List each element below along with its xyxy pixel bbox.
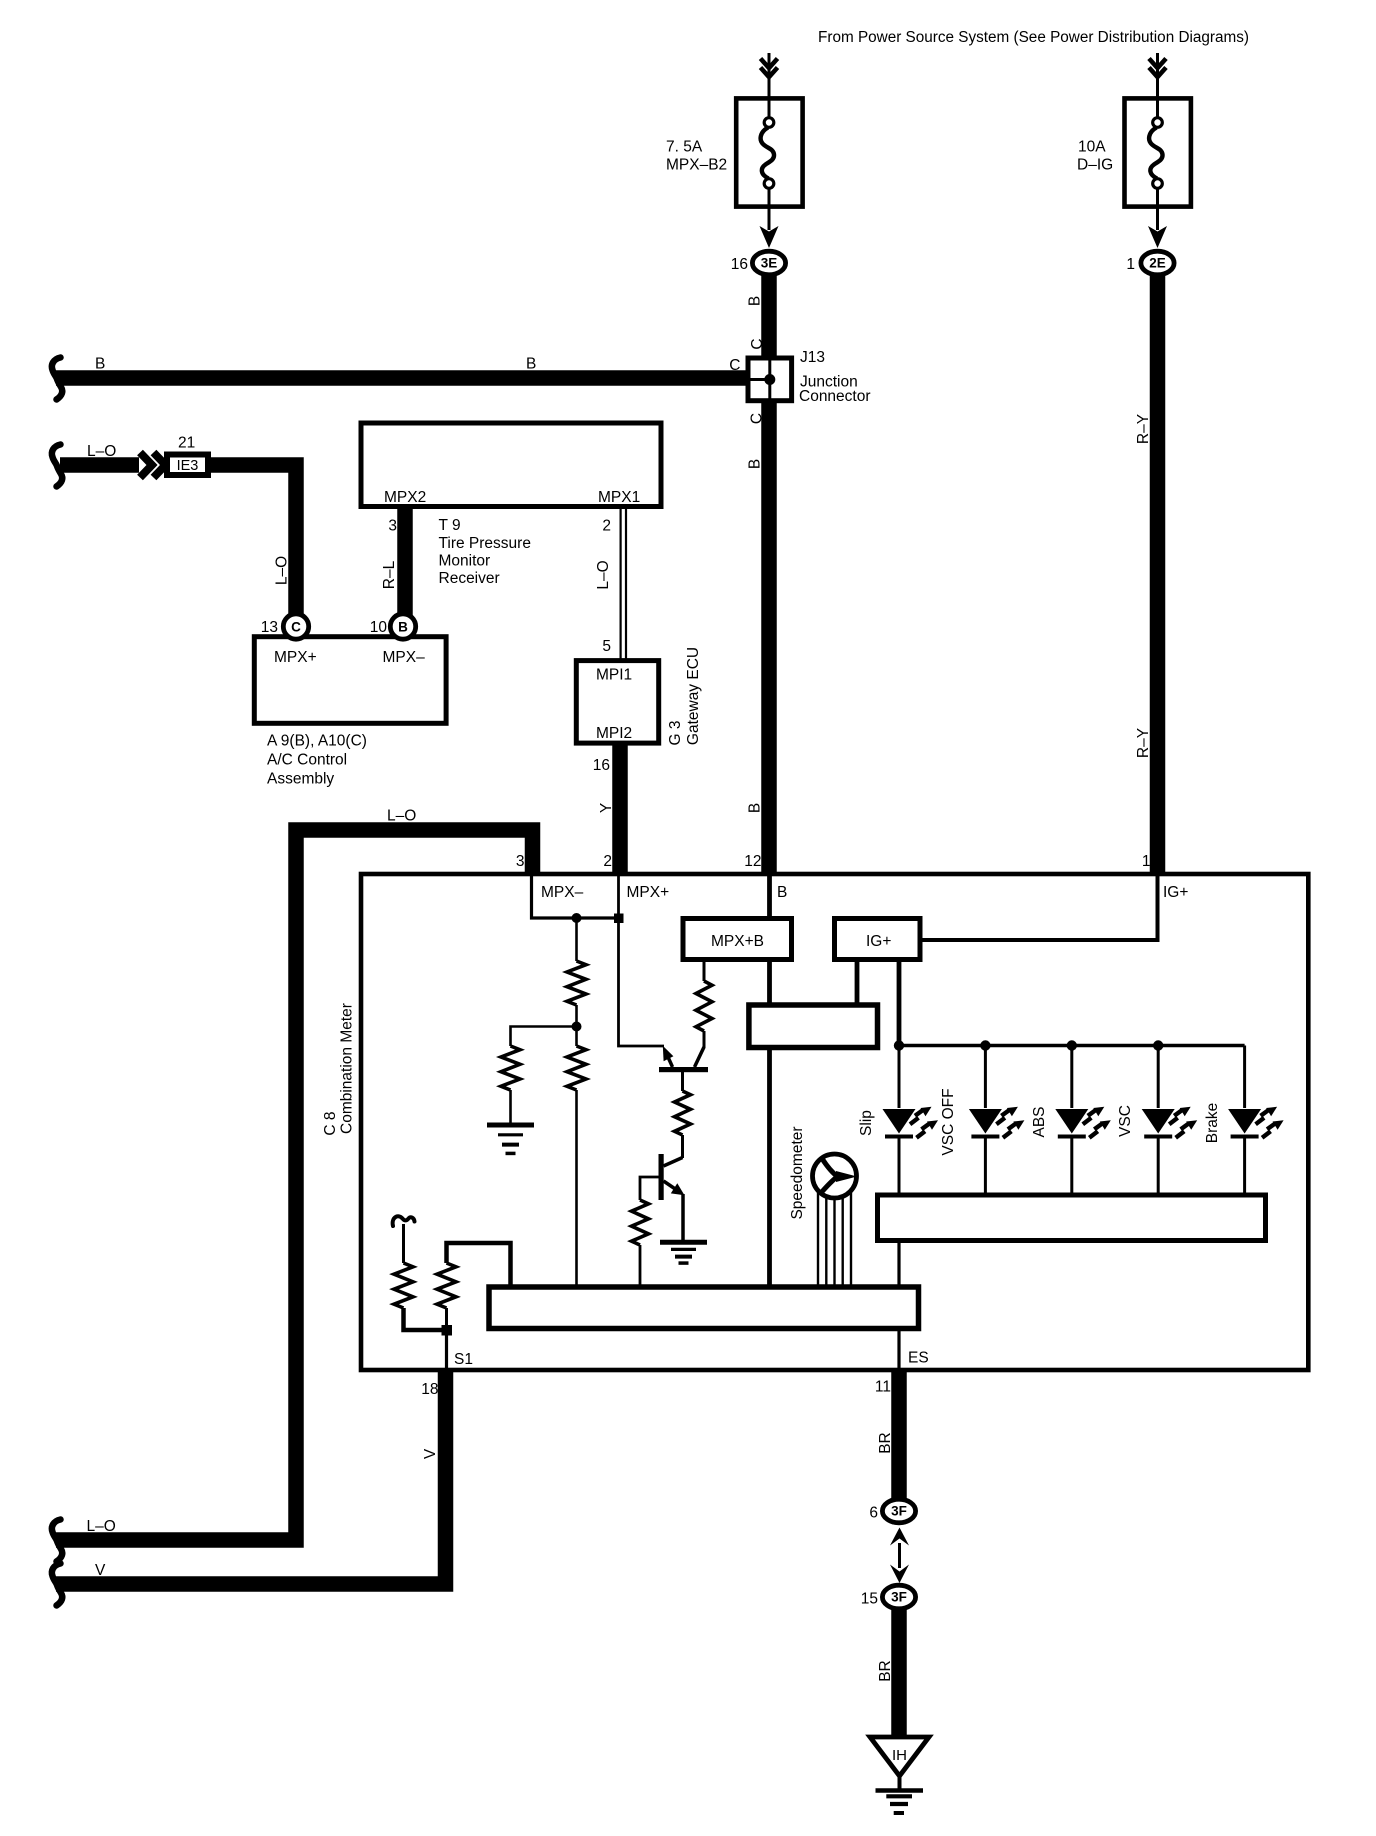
svg-text:5: 5 <box>602 638 611 655</box>
svg-text:L–O: L–O <box>87 1518 116 1535</box>
node <box>894 1040 904 1050</box>
terminal box MPX+B <box>683 919 792 960</box>
svg-text:IG+: IG+ <box>866 933 891 950</box>
resistor (between Q1 and Q2) <box>675 1091 691 1135</box>
svg-text:1: 1 <box>1126 256 1135 273</box>
connector 21 IE3 <box>167 455 208 476</box>
wire Y from G3 pin 16 to meter pin 2 <box>612 746 628 874</box>
svg-text:IH: IH <box>892 1747 907 1764</box>
junction connector J13 <box>748 358 792 401</box>
connector 6 3F <box>882 1499 915 1523</box>
indicator LED Slip <box>883 1046 939 1196</box>
svg-text:3: 3 <box>388 518 397 535</box>
combination meter C8 box <box>361 874 1308 1370</box>
connector 15 3F <box>891 1597 907 1737</box>
gateway ECU G3 box <box>576 661 658 744</box>
wire BR from meter pin 11 to connector 3F <box>891 1370 907 1499</box>
svg-text:ES: ES <box>908 1350 929 1367</box>
indicator LED VSC OFF <box>969 1046 1025 1196</box>
resistor (MPX- upper) <box>567 961 586 1005</box>
speedometer ribbon wires <box>818 1185 851 1286</box>
svg-text:V: V <box>422 1448 439 1459</box>
svg-text:Slip: Slip <box>858 1110 875 1136</box>
continuation squiggle (V wire) <box>52 1564 62 1606</box>
svg-text:ABS: ABS <box>1031 1106 1048 1137</box>
svg-text:B: B <box>747 459 764 469</box>
svg-text:Y: Y <box>598 803 615 813</box>
probe hook <box>393 1216 415 1226</box>
svg-text:MPX+B: MPX+B <box>711 933 764 950</box>
svg-text:11: 11 <box>875 1379 891 1396</box>
wire IG+ internal from pin 1 <box>923 875 1158 940</box>
svg-text:A/C Control: A/C Control <box>267 752 347 769</box>
wire R-L from T9 pin 3 to A/C connector B <box>397 509 413 616</box>
svg-text:BR: BR <box>877 1660 894 1682</box>
ground <box>487 1123 534 1128</box>
indicator lamp driver box <box>878 1195 1266 1241</box>
svg-text:MPX1: MPX1 <box>598 489 640 506</box>
svg-text:BR: BR <box>877 1432 894 1454</box>
fuse F1 7.5A MPX-B2 <box>736 98 802 206</box>
svg-text:C: C <box>729 357 740 374</box>
connector C (pin 13) <box>283 614 308 639</box>
wire V from page edge to meter pin 18 <box>56 1370 446 1584</box>
svg-text:12: 12 <box>744 853 761 870</box>
svg-text:VSC OFF: VSC OFF <box>940 1088 957 1155</box>
wire branch to grounded resistor <box>511 1027 577 1047</box>
svg-text:6: 6 <box>869 1505 878 1522</box>
wire Q1 to Q2 <box>681 1072 684 1091</box>
internal bus box <box>489 1287 919 1329</box>
wire IG+ to lamp bus <box>897 962 902 1046</box>
resistor (Q1 collector to MPX+B) <box>696 981 712 1031</box>
wire ES internal <box>897 1241 900 1286</box>
ground (Q2 emitter) <box>660 1240 707 1245</box>
wire L-O (twisted pair) from T9 pin 2 to gateway ECU pin 5 <box>619 507 621 661</box>
svg-text:18: 18 <box>421 1381 438 1398</box>
arrow into connector 3E <box>768 207 771 231</box>
indicator LED ABS <box>1055 1046 1111 1196</box>
svg-text:B: B <box>526 356 536 373</box>
wire B internal <box>767 875 772 917</box>
resistor (sensor left) <box>394 1263 413 1308</box>
svg-text:2: 2 <box>602 518 611 535</box>
resistor (sensor right) <box>437 1263 456 1308</box>
wire MPX- internal <box>575 918 578 961</box>
svg-text:A 9(B), A10(C): A 9(B), A10(C) <box>267 733 367 750</box>
svg-text:L–O: L–O <box>87 443 116 460</box>
svg-text:Speedometer: Speedometer <box>789 1126 806 1219</box>
svg-text:C 8: C 8 <box>322 1111 339 1135</box>
svg-text:15: 15 <box>861 1591 878 1608</box>
connector 16 3E <box>752 251 785 275</box>
svg-text:IG+: IG+ <box>1163 884 1188 901</box>
svg-text:Brake: Brake <box>1204 1103 1221 1144</box>
svg-text:V: V <box>95 1562 106 1579</box>
svg-text:3E: 3E <box>761 256 778 271</box>
svg-text:10A: 10A <box>1078 139 1106 156</box>
svg-text:G 3: G 3 <box>667 721 684 746</box>
arrow into connector 2E <box>1156 207 1159 231</box>
driver box <box>749 1005 878 1048</box>
svg-text:7. 5A: 7. 5A <box>666 139 703 156</box>
continuation squiggle (L-O wire) <box>52 445 62 487</box>
wire MPX+ internal <box>619 875 665 1046</box>
wire Q2 base <box>640 1177 659 1200</box>
terminal box IG+ <box>835 919 921 960</box>
svg-text:C: C <box>291 620 301 635</box>
connector 1 2E <box>1141 251 1174 275</box>
continuation squiggle (B wire) <box>52 358 62 400</box>
transistor Q1 (PNP) <box>659 1067 708 1072</box>
node <box>1153 1040 1163 1050</box>
wire from power source into fuse F2 <box>1156 53 1159 98</box>
svg-text:3: 3 <box>516 853 525 870</box>
svg-text:MPX–: MPX– <box>383 649 426 666</box>
node on MPX- cell <box>572 913 582 923</box>
ground symbol <box>898 1774 902 1791</box>
node <box>980 1040 990 1050</box>
svg-text:T 9: T 9 <box>439 517 461 534</box>
svg-text:Receiver: Receiver <box>439 570 500 587</box>
svg-text:R–Y: R–Y <box>1135 414 1152 444</box>
wire L-O from page edge up to meter pin 3 <box>56 830 533 1540</box>
svg-text:L–O: L–O <box>274 556 291 585</box>
svg-text:Connector: Connector <box>799 388 871 405</box>
junction square S1 <box>442 1325 453 1336</box>
resistor (Q2 base) <box>632 1200 649 1245</box>
wire L-O from IE3 down to A/C connector C <box>205 465 296 616</box>
svg-text:Gateway ECU: Gateway ECU <box>685 647 702 745</box>
svg-text:Assembly: Assembly <box>267 771 334 788</box>
svg-text:Combination Meter: Combination Meter <box>339 1003 356 1134</box>
wire S1 <box>445 1335 448 1370</box>
svg-text:IE3: IE3 <box>177 458 199 474</box>
svg-text:MPI2: MPI2 <box>596 725 632 742</box>
svg-text:L–O: L–O <box>595 560 612 589</box>
continuation squiggle (L-O bottom) <box>52 1520 62 1562</box>
node <box>1067 1040 1077 1050</box>
svg-text:S1: S1 <box>454 1351 473 1368</box>
svg-text:B: B <box>747 803 764 813</box>
node <box>572 1022 582 1032</box>
svg-text:From Power Source System (See: From Power Source System (See Power Dist… <box>818 29 1249 46</box>
svg-text:B: B <box>95 356 105 373</box>
indicator LED VSC <box>1142 1046 1198 1196</box>
svg-text:Monitor: Monitor <box>439 553 491 570</box>
lamp bus wire <box>899 1044 1245 1047</box>
wire R-Y vertical from 2E to meter pin 1 <box>1150 272 1166 874</box>
arrow down to 3F <box>890 1565 909 1584</box>
svg-text:13: 13 <box>261 619 278 636</box>
svg-text:2: 2 <box>603 853 612 870</box>
fuse F2 10A D-IG <box>1125 98 1191 206</box>
svg-text:C: C <box>749 413 766 424</box>
svg-text:1: 1 <box>1142 853 1151 870</box>
svg-text:MPX+: MPX+ <box>274 649 317 666</box>
svg-text:MPX+: MPX+ <box>627 884 670 901</box>
wire IG+ to driver box <box>855 962 860 1003</box>
svg-text:D–IG: D–IG <box>1077 157 1113 174</box>
T9 tire pressure monitor receiver <box>361 423 661 507</box>
wire resistor to bus box <box>447 1243 511 1286</box>
transistor Q2 (NPN) <box>659 1154 664 1200</box>
A/C control assembly box <box>254 637 446 724</box>
svg-text:16: 16 <box>593 757 610 774</box>
connector B (pin 10) <box>390 614 415 639</box>
svg-text:R–Y: R–Y <box>1135 728 1152 758</box>
svg-text:MPX–B2: MPX–B2 <box>666 157 727 174</box>
svg-text:MPI1: MPI1 <box>596 667 632 684</box>
svg-text:R–L: R–L <box>381 560 398 589</box>
svg-text:J13: J13 <box>800 349 825 366</box>
svg-text:3F: 3F <box>891 1590 907 1605</box>
svg-text:L–O: L–O <box>387 808 416 825</box>
svg-text:C: C <box>749 338 766 349</box>
svg-text:VSC: VSC <box>1117 1105 1134 1137</box>
svg-text:21: 21 <box>178 435 195 452</box>
svg-text:B: B <box>747 296 764 306</box>
arrow up to 3F <box>890 1528 909 1546</box>
wire B vertical from 3E through J13 to meter pin 12 <box>761 272 777 874</box>
svg-text:MPX–: MPX– <box>541 884 584 901</box>
svg-text:10: 10 <box>370 619 388 636</box>
svg-text:B: B <box>398 620 408 635</box>
ground connector IH <box>870 1737 929 1776</box>
wire from power source into fuse F1 <box>768 53 771 98</box>
resistor (to ground) <box>501 1046 520 1090</box>
svg-text:MPX2: MPX2 <box>384 489 426 506</box>
wire B horizontal from page edge to J13 <box>56 370 747 386</box>
svg-text:2E: 2E <box>1149 256 1166 271</box>
wire L-O from page edge <box>60 457 139 473</box>
svg-text:B: B <box>777 884 787 901</box>
svg-text:Tire Pressure: Tire Pressure <box>439 535 531 552</box>
junction square <box>614 914 624 924</box>
MPX- terminal cell <box>532 875 619 918</box>
resistor (MPX- lower) <box>567 1046 586 1090</box>
wire between 3F connectors <box>898 1543 901 1568</box>
svg-text:16: 16 <box>731 256 748 273</box>
svg-text:3F: 3F <box>891 1504 907 1519</box>
speedometer <box>813 1154 857 1198</box>
indicator LED Brake <box>1228 1046 1284 1196</box>
splice arrows <box>140 453 166 478</box>
